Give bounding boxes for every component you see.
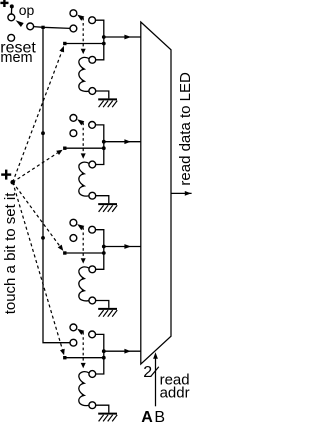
wire read addr <box>155 358 157 407</box>
svg-text:A: A <box>141 409 153 423</box>
contact bit 1 common <box>70 25 77 32</box>
memory cell bit 4 <box>63 324 141 421</box>
arrow bit 2 linkage to coil <box>81 153 86 158</box>
ground bit 4 <box>96 405 109 412</box>
power + (touch a bit) <box>1 170 11 180</box>
wire select bus vertical <box>43 27 70 342</box>
memory cell bit 3 <box>63 219 141 316</box>
arrow bit 4 linkage to contact <box>77 329 84 335</box>
wire bit 2 output to coil <box>96 125 104 165</box>
arrow bit 2 into mux <box>124 139 130 144</box>
arrow bit 4 into mux <box>124 349 130 354</box>
arrow set bit 1 <box>59 46 64 53</box>
junction bit 2 output <box>102 140 106 144</box>
arrow bit 2 linkage to contact <box>77 119 84 125</box>
svg-text:mem: mem <box>0 50 32 66</box>
contact bit 4 output <box>89 331 96 338</box>
junction bit 1 output <box>102 35 106 39</box>
arrow bit 1 linkage to coil <box>81 49 86 54</box>
contact bit 2 touch plate <box>70 115 77 122</box>
relay coil bit 2 winding <box>79 162 89 196</box>
node op supply dot <box>10 4 14 8</box>
relay coil bit 3 top terminal <box>89 266 96 273</box>
wire bit 4 set line <box>65 357 104 359</box>
node bit 4 touch pad <box>63 356 66 359</box>
arrow bit 3 linkage to coil <box>81 258 86 263</box>
wire bit 4 to mux <box>104 350 141 352</box>
ground bit 2 <box>96 196 109 203</box>
arrow mux output <box>185 191 191 196</box>
wire bit 3 armature linkage <box>82 227 84 258</box>
arrow bit 4 linkage to coil <box>81 363 86 368</box>
relay coil bit 2 bottom terminal <box>89 192 96 199</box>
wire bit 1 to mux <box>104 36 141 38</box>
contact bit 4 touch plate <box>70 324 77 331</box>
contact bit 1 touch plate <box>70 10 77 17</box>
junction bit 1 set <box>102 42 106 46</box>
arrow set bit 2 <box>56 150 62 155</box>
junction bus cell 3 <box>41 236 45 240</box>
wire op to cell 1 <box>34 27 70 29</box>
arrow bit 3 into mux <box>124 244 130 249</box>
wire dashed set line to bit 4 <box>13 182 63 349</box>
memory cell bit 1 <box>63 10 141 107</box>
junction bit 3 set <box>102 251 106 255</box>
power + (op pulse) <box>0 0 8 7</box>
wire bit 3 set line <box>65 252 104 254</box>
junction bit 4 set <box>102 356 106 360</box>
relay coil bit 1 winding <box>79 57 89 91</box>
wire bit 1 armature linkage <box>82 18 84 49</box>
contact bit 2 common <box>70 130 77 137</box>
wire bit 3 to mux <box>104 246 141 248</box>
junction bus cell 2 <box>41 131 45 135</box>
contact bit 1 output <box>89 17 96 24</box>
relay coil bit 1 top terminal <box>89 56 96 63</box>
relay coil bit 4 bottom terminal <box>89 402 96 409</box>
svg-text:touch a bit to set it: touch a bit to set it <box>2 192 19 315</box>
wire bit 1 set line <box>65 43 104 45</box>
svg-text:addr: addr <box>160 384 190 401</box>
relay coil bit 2 top terminal <box>89 161 96 168</box>
relay coil bit 4 top terminal <box>89 371 96 378</box>
contact op left <box>8 14 15 21</box>
arrow bit 1 linkage to contact <box>77 15 84 21</box>
contact bit 3 output <box>89 226 96 233</box>
svg-text:B: B <box>154 409 165 423</box>
contact reset <box>8 34 15 41</box>
wire dashed set line to bit 3 <box>13 182 60 246</box>
wire + to op contact <box>10 7 12 14</box>
relay coil bit 3 winding <box>79 267 89 301</box>
node bit 1 touch pad <box>63 42 66 45</box>
wire mux output <box>171 192 192 194</box>
svg-text:read data to LED: read data to LED <box>177 72 194 186</box>
wire bit 1 output to coil <box>96 20 104 60</box>
mux read selector <box>141 22 171 364</box>
arrow bit 3 linkage to contact <box>77 224 84 230</box>
wire bit 4 output to coil <box>96 334 104 374</box>
wire dashed set line to bit 2 <box>13 153 58 182</box>
arrow set bit 3 <box>58 245 64 251</box>
contact op right <box>27 23 34 30</box>
arrow read addr into mux <box>153 352 158 358</box>
wire bit 2 to mux <box>104 141 141 143</box>
svg-text:op: op <box>19 2 35 18</box>
junction bus top <box>41 26 44 29</box>
contact bit 3 touch plate <box>70 219 77 226</box>
contact bit 4 common <box>70 339 77 346</box>
contact bit 3 common <box>70 235 77 242</box>
node touch dot <box>10 180 15 185</box>
relay coil bit 3 bottom terminal <box>89 297 96 304</box>
wire bit 3 output to coil <box>96 230 104 270</box>
relay coil bit 4 winding <box>79 372 89 406</box>
node bit 2 touch pad <box>63 147 66 150</box>
arrow set bit 4 <box>60 349 65 356</box>
svg-text:2: 2 <box>143 364 152 381</box>
junction bit 3 output <box>102 245 106 249</box>
wire bit 4 armature linkage <box>82 332 84 363</box>
wire bit 2 set line <box>65 147 104 149</box>
contact bit 2 output <box>89 122 96 129</box>
arrow bit 1 into mux <box>124 35 130 40</box>
bus width slash <box>151 367 159 377</box>
ground bit 3 <box>96 301 109 308</box>
memory cell bit 2 <box>63 115 141 212</box>
node bit 3 touch pad <box>63 251 66 254</box>
relay coil bit 1 bottom terminal <box>89 88 96 95</box>
junction bit 4 output <box>102 349 106 353</box>
wire dashed set line to bit 1 <box>13 52 62 183</box>
junction bit 2 set <box>102 146 106 150</box>
wire bit 2 armature linkage <box>82 123 84 154</box>
arrow op touch <box>16 20 24 27</box>
ground bit 1 <box>96 91 109 98</box>
